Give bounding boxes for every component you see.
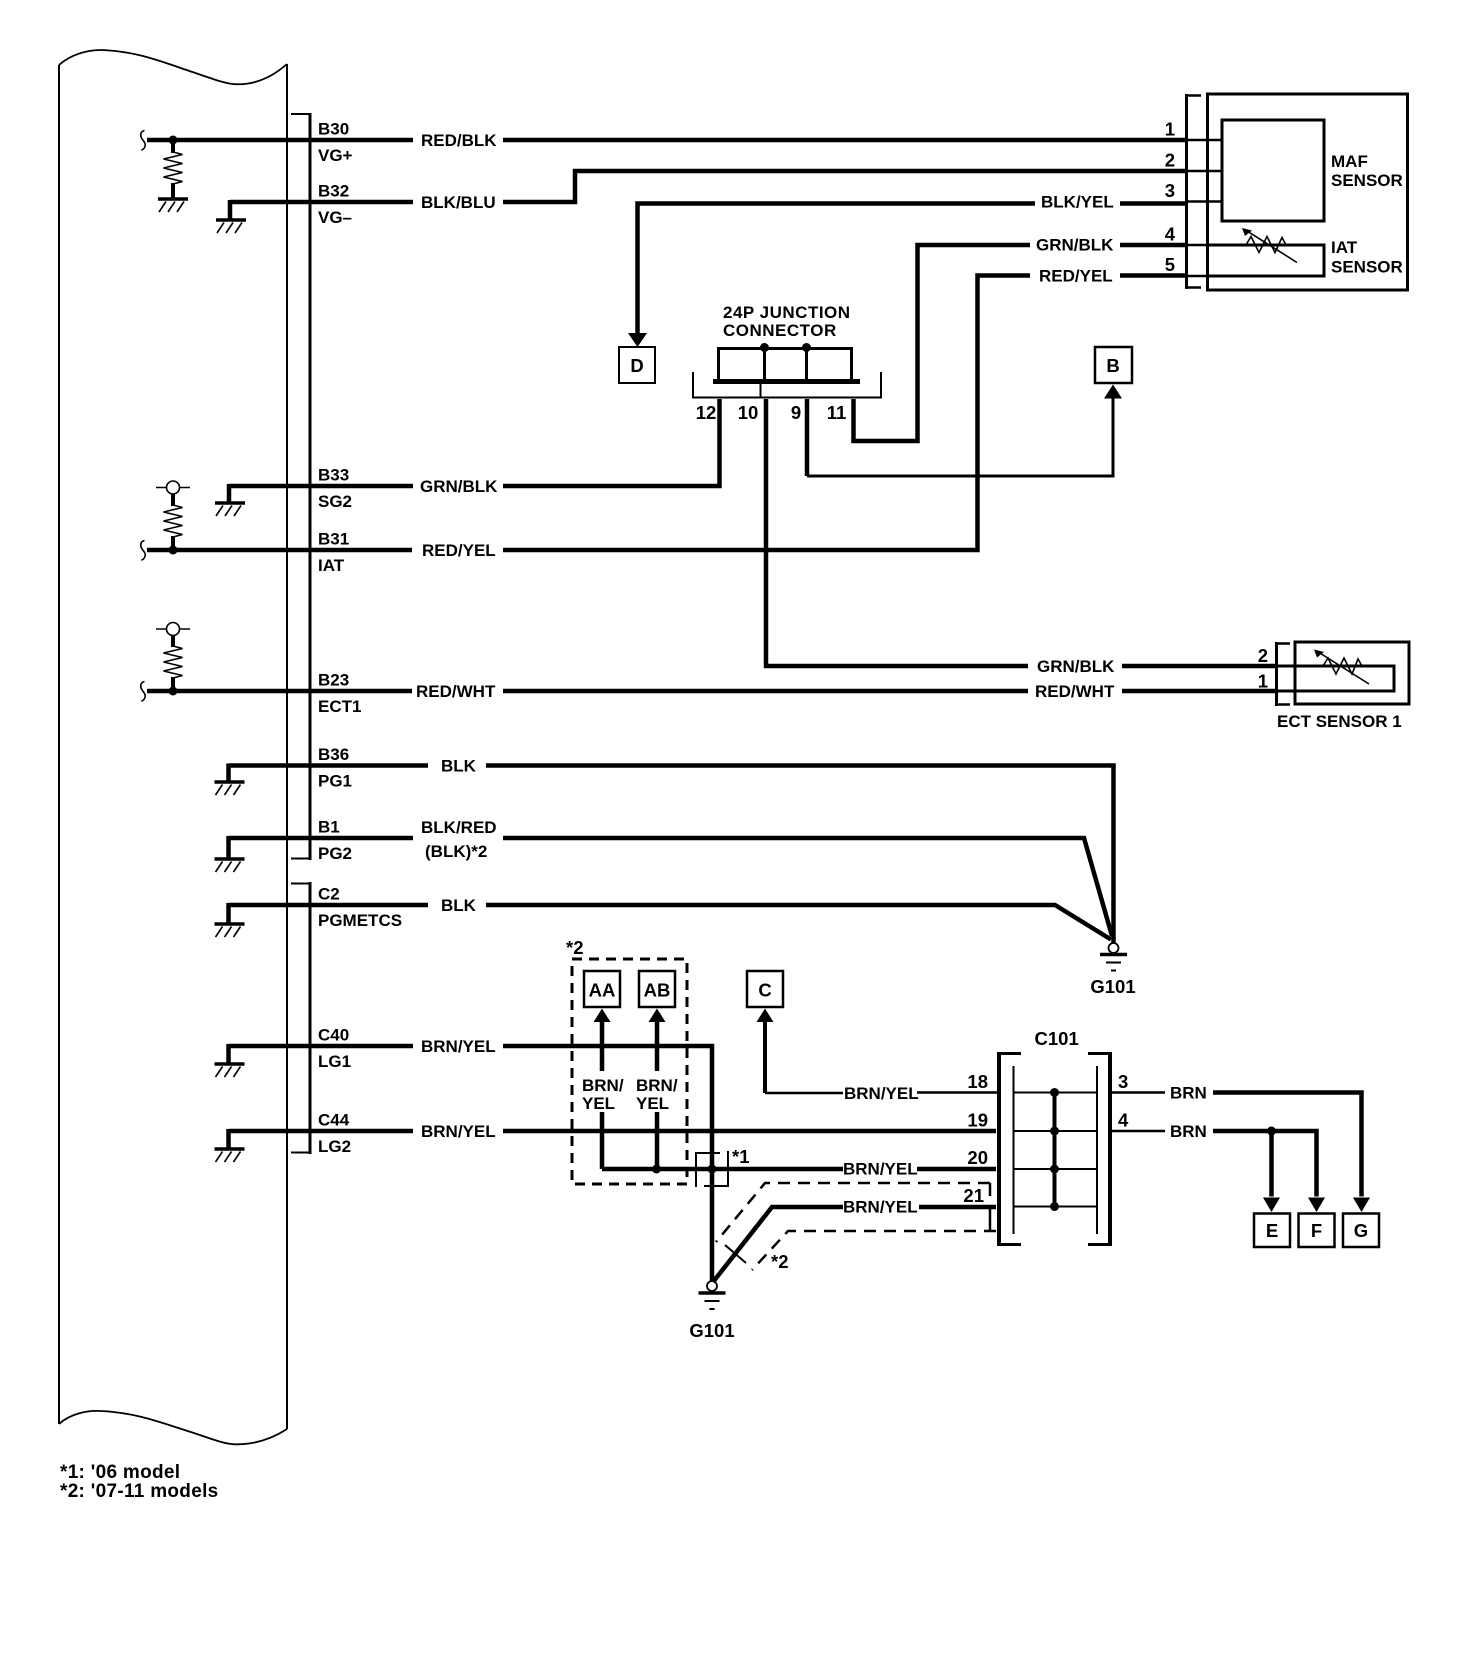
wire B31 internal — [147, 548, 412, 553]
svg-text:C: C — [758, 980, 771, 1001]
svg-text:BLK/YEL: BLK/YEL — [1041, 193, 1114, 212]
wire B33 to 24P junction pin12 — [503, 399, 720, 486]
ground (ECM internal) B36 — [215, 782, 245, 795]
svg-text:SG2: SG2 — [318, 492, 352, 511]
svg-text:B33: B33 — [318, 466, 349, 485]
resistor from circle to B23 — [171, 636, 175, 648]
svg-text:B32: B32 — [318, 182, 349, 201]
svg-text:B1: B1 — [318, 818, 340, 837]
svg-text:BLK: BLK — [441, 757, 477, 776]
svg-text:11: 11 — [827, 402, 847, 423]
svg-text:BRN/YEL: BRN/YEL — [844, 1084, 919, 1103]
svg-text:SENSOR: SENSOR — [1331, 171, 1403, 190]
svg-text:IAT: IAT — [318, 556, 345, 575]
svg-text:GRN/BLK: GRN/BLK — [1036, 236, 1114, 255]
svg-text:GRN/BLK: GRN/BLK — [1037, 657, 1115, 676]
svg-text:(BLK)*2: (BLK)*2 — [425, 842, 487, 861]
wire B23 internal — [147, 689, 412, 694]
node on B30 — [169, 136, 178, 145]
svg-text:VG+: VG+ — [318, 146, 353, 165]
svg-text:C40: C40 — [318, 1026, 349, 1045]
wire C40 down to G101 (bottom) — [503, 1046, 712, 1281]
svg-text:BRN/YEL: BRN/YEL — [421, 1122, 496, 1141]
svg-text:D: D — [630, 355, 643, 376]
ground (ECM internal) B33 — [215, 503, 245, 516]
bus nodes — [1050, 1088, 1059, 1097]
svg-text:LG1: LG1 — [318, 1052, 351, 1071]
wire B1 internal — [229, 836, 414, 841]
ECT connector bracket — [1277, 642, 1291, 706]
svg-text:*1: '06 model: *1: '06 model — [60, 1462, 180, 1483]
ECT sensor box — [1295, 642, 1409, 704]
svg-text:19: 19 — [967, 1110, 988, 1131]
wire AB arrow shaft — [655, 1022, 660, 1071]
wire bus to C101 pin20 — [602, 1167, 843, 1172]
D box — [619, 347, 655, 383]
svg-text:ECT SENSOR 1: ECT SENSOR 1 — [1277, 712, 1402, 731]
svg-text:21: 21 — [963, 1185, 984, 1206]
svg-text:4: 4 — [1118, 1110, 1129, 1131]
ECT thermistor zigzag — [1323, 658, 1362, 674]
svg-text:AA: AA — [589, 980, 616, 1001]
svg-text:CONNECTOR: CONNECTOR — [723, 321, 837, 340]
ECM connector bracket B (pins B30..B1) — [291, 113, 310, 860]
svg-text:*1: *1 — [732, 1146, 750, 1167]
svg-text:BLK/RED: BLK/RED — [421, 818, 497, 837]
MAF sensor inner element box — [1222, 120, 1324, 221]
arrowhead into D — [628, 333, 647, 347]
svg-text:F: F — [1311, 1220, 1322, 1241]
svg-text:1: 1 — [1165, 119, 1175, 140]
wire B31 to MAF pin5 — [503, 276, 1030, 551]
junction node dots — [760, 343, 769, 352]
ground G101 (bottom) — [699, 1281, 726, 1309]
divider stubs — [760, 384, 762, 397]
wire C2 internal — [229, 903, 429, 908]
svg-text:4: 4 — [1165, 224, 1176, 245]
AA box — [584, 971, 620, 1007]
svg-text:G101: G101 — [1090, 976, 1135, 997]
svg-text:B: B — [1106, 355, 1119, 376]
ground stub B1 — [226, 836, 231, 859]
svg-text:BRN: BRN — [1170, 1122, 1207, 1141]
svg-text:5: 5 — [1165, 254, 1175, 275]
dashed box *2 — [572, 959, 687, 1184]
ground (ECM internal) C40 — [215, 1064, 245, 1077]
wire junction pin11 to MAF pin4 — [854, 245, 1031, 441]
svg-text:3: 3 — [1118, 1071, 1128, 1092]
junction connector lower bracket — [693, 372, 881, 398]
wire B36 internal — [229, 763, 429, 768]
ECT element loop — [1277, 666, 1394, 691]
svg-text:2: 2 — [1258, 645, 1268, 666]
ECM connector bracket C (pins C2..C44) — [291, 882, 310, 1154]
MAF connector bracket — [1187, 94, 1202, 289]
svg-text:YEL: YEL — [582, 1094, 615, 1113]
svg-text:YEL: YEL — [636, 1094, 669, 1113]
dashed alternate route B (pin21 lower) — [752, 1231, 996, 1270]
wire C arrow shaft — [763, 1022, 767, 1093]
svg-text:IAT: IAT — [1331, 238, 1358, 257]
F box — [1299, 1214, 1335, 1248]
svg-text:BRN/YEL: BRN/YEL — [843, 1198, 918, 1217]
wire C44 to C101 pin19 — [503, 1129, 996, 1134]
ground (ECM internal) B1 — [215, 859, 245, 872]
svg-text:3: 3 — [1165, 180, 1175, 201]
svg-text:18: 18 — [967, 1071, 988, 1092]
pin 1 stub — [1188, 139, 1222, 142]
wire C40 internal — [229, 1044, 414, 1049]
reference supply circle (SG2 row) — [156, 481, 190, 494]
svg-text:MAF: MAF — [1331, 152, 1368, 171]
wire B30 internal+stub — [147, 138, 413, 143]
svg-text:2: 2 — [1165, 150, 1175, 171]
svg-text:12: 12 — [696, 402, 717, 423]
wire B30 to MAF pin1 — [503, 138, 1185, 143]
G box — [1343, 1214, 1379, 1248]
svg-text:BRN/YEL: BRN/YEL — [421, 1037, 496, 1056]
svg-text:BRN: BRN — [1170, 1084, 1207, 1103]
wire B32 to MAF pin2 — [503, 171, 1185, 202]
wire break squiggle B31 — [141, 541, 146, 561]
svg-text:24P JUNCTION: 24P JUNCTION — [723, 303, 851, 322]
svg-text:RED/YEL: RED/YEL — [1039, 267, 1113, 286]
IAT thermistor arrow — [1247, 231, 1297, 263]
svg-text:20: 20 — [967, 1147, 988, 1168]
MAF sensor outer box — [1208, 94, 1408, 290]
wire B33 internal — [229, 484, 413, 489]
svg-text:BLK: BLK — [441, 896, 477, 915]
wire break squiggle B30 — [141, 131, 146, 151]
wire C44 internal — [229, 1129, 414, 1134]
svg-text:B31: B31 — [318, 530, 349, 549]
svg-text:BRN/: BRN/ — [636, 1076, 678, 1095]
svg-text:BRN/YEL: BRN/YEL — [843, 1160, 918, 1179]
svg-text:RED/WHT: RED/WHT — [1035, 682, 1115, 701]
svg-text:RED/BLK: RED/BLK — [421, 131, 497, 150]
junction connector base bar — [713, 379, 860, 384]
svg-text:C44: C44 — [318, 1111, 350, 1130]
wire break squiggle B23 — [141, 682, 146, 702]
reference supply circle (ECT1 row) — [156, 623, 190, 636]
svg-text:RED/WHT: RED/WHT — [416, 682, 496, 701]
wire BLK/YEL to D — [638, 204, 1036, 335]
arrowhead into AB — [649, 1009, 666, 1023]
arrowhead into G — [1353, 1198, 1370, 1213]
node on B31 — [169, 546, 178, 555]
arrowhead into C — [757, 1009, 774, 1023]
wire B36 to G101 — [486, 766, 1114, 944]
wire pin9 to B arrow — [807, 399, 1113, 477]
svg-text:RED/YEL: RED/YEL — [422, 541, 496, 560]
wire MAF pin3 segment — [1120, 201, 1185, 206]
node AB-bus — [652, 1165, 661, 1174]
svg-text:B36: B36 — [318, 745, 349, 764]
wire C101 pin3 — [1112, 1091, 1165, 1094]
svg-text:*2: *2 — [566, 937, 584, 958]
svg-text:*2: *2 — [771, 1251, 789, 1272]
ground (ECM internal) B32 — [216, 220, 246, 233]
wire B32 internal — [230, 200, 413, 205]
pin 2 stub — [1188, 170, 1222, 173]
svg-text:G101: G101 — [689, 1320, 734, 1341]
svg-text:10: 10 — [738, 402, 759, 423]
dashed tick B — [989, 1208, 992, 1231]
svg-text:B30: B30 — [318, 120, 349, 139]
svg-text:9: 9 — [791, 402, 801, 423]
resistor from circle to B31 — [171, 494, 175, 506]
node on pin4 wire — [1267, 1127, 1276, 1136]
svg-text:C2: C2 — [318, 885, 340, 904]
ground stub C44 — [226, 1129, 231, 1149]
ECM body outline (torn-edge box) — [59, 50, 287, 1444]
IAT thermistor zigzag — [1246, 237, 1286, 253]
wire B1 to G101 — [503, 838, 1112, 936]
svg-text:PGMETCS: PGMETCS — [318, 911, 402, 930]
junction connector cells — [719, 349, 852, 380]
arrowhead into F — [1308, 1198, 1325, 1213]
crossing mark X — [725, 1245, 746, 1263]
C101 pin lines — [1014, 1092, 1097, 1094]
wire C101 pin4 — [1112, 1130, 1165, 1133]
wire MAF pin4 segment — [1120, 243, 1185, 248]
svg-text:BLK/BLU: BLK/BLU — [421, 193, 496, 212]
wire C2 to G101 — [486, 905, 1111, 940]
ground stub C40 — [226, 1044, 231, 1064]
svg-text:1: 1 — [1258, 671, 1268, 692]
svg-text:*2: '07-11 models: *2: '07-11 models — [60, 1481, 219, 1502]
pin 5 stub — [1188, 275, 1209, 278]
B box — [1095, 347, 1132, 383]
ground (ECM internal) C44 — [215, 1149, 245, 1162]
E box — [1254, 1214, 1290, 1248]
svg-text:C101: C101 — [1035, 1028, 1079, 1049]
svg-text:GRN/BLK: GRN/BLK — [420, 477, 498, 496]
C101 internal bus — [1053, 1093, 1057, 1207]
dashed tick A — [989, 1183, 992, 1196]
svg-text:VG–: VG– — [318, 208, 352, 227]
arrowhead into B — [1104, 385, 1122, 399]
wire AA arrow shaft — [600, 1022, 605, 1071]
wire drop to E — [1269, 1131, 1274, 1197]
wire junction pin10 to ECT pin2 — [766, 399, 1028, 666]
svg-text:SENSOR: SENSOR — [1331, 258, 1403, 277]
ground stub B32 — [228, 200, 233, 220]
ECT thermistor arrow — [1319, 653, 1369, 685]
svg-text:BRN/: BRN/ — [582, 1076, 624, 1095]
svg-text:AB: AB — [644, 980, 671, 1001]
ground stub B36 — [226, 764, 231, 783]
AB box — [639, 971, 675, 1007]
inline connector *1 — [696, 1151, 728, 1187]
C box — [747, 971, 783, 1007]
svg-text:B23: B23 — [318, 671, 349, 690]
wire C101 pin21 to G101 — [919, 1205, 996, 1210]
ground (ECM internal) C2 — [215, 924, 245, 937]
dashed alternate route A (pin21 upper) — [716, 1183, 990, 1242]
pin 3 stub — [1188, 200, 1222, 203]
wire B23 to ECT sensor pin1 — [503, 689, 1028, 694]
ground stub B33 — [227, 484, 232, 503]
node C40-bus — [708, 1165, 717, 1174]
svg-text:E: E — [1266, 1220, 1278, 1241]
svg-text:LG2: LG2 — [318, 1137, 351, 1156]
ground stub C2 — [226, 903, 231, 924]
svg-text:G: G — [1354, 1220, 1368, 1241]
pin 4 stub — [1188, 244, 1209, 247]
arrowhead into AA — [594, 1009, 611, 1023]
wire C to C101 pin18 — [765, 1092, 843, 1095]
resistor (pull-down) on B30 — [171, 140, 175, 153]
svg-text:ECT1: ECT1 — [318, 697, 361, 716]
svg-text:PG1: PG1 — [318, 772, 352, 791]
node on B23 — [169, 687, 178, 696]
arrowhead into E — [1263, 1198, 1280, 1213]
ground (ECM internal) below B30 resistor — [158, 199, 188, 212]
C101 left bracket — [999, 1052, 1021, 1246]
C101 right bracket — [1088, 1052, 1110, 1246]
svg-text:PG2: PG2 — [318, 844, 352, 863]
IAT sensor element box (open left) — [1209, 245, 1324, 276]
wire junction pin9 down — [805, 399, 810, 476]
